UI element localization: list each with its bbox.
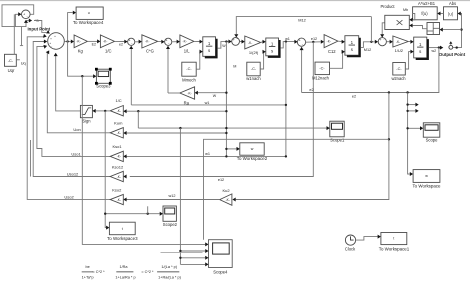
svg-text:-: -	[302, 42, 303, 46]
svg-text:1/L: 1/L	[184, 49, 190, 54]
wire selector to product	[413, 26, 427, 29]
scope Scope1	[330, 121, 344, 137]
wire down to Scope2 line	[105, 111, 106, 228]
svg-text:-: -	[168, 42, 169, 46]
wire w2 feedback into sum5 bottom	[301, 50, 303, 93]
wire W feedback vertical	[225, 42, 227, 157]
wire Mmech to integrator1 ic port	[196, 52, 200, 70]
sum junction big sum	[48, 33, 65, 50]
wire sum6 to 1/U2	[386, 41, 389, 43]
sum junction sum4	[232, 38, 240, 46]
wire C*G to sum3	[158, 40, 162, 42]
svg-text:Scope2: Scope2	[163, 222, 178, 227]
constant Mmech	[182, 62, 196, 76]
wire W to Ra gain	[198, 92, 227, 94]
sum junction sum5	[297, 38, 305, 46]
scope Scope3	[96, 69, 110, 83]
block Sign	[80, 105, 92, 117]
gain C*G	[142, 35, 158, 48]
wire sum5 output e12	[306, 41, 321, 43]
wire to Scope4 input2	[179, 128, 181, 264]
wire W to To Workspace2	[226, 148, 236, 150]
wire Ra output to sum3	[168, 92, 180, 94]
svg-text:-K-: -K-	[117, 131, 121, 135]
wire Fcn to product	[413, 14, 415, 20]
svg-text:-: -	[54, 47, 55, 51]
svg-text:Mmech: Mmech	[182, 77, 196, 82]
gain Ra	[180, 87, 195, 99]
svg-text:-: -	[131, 42, 132, 46]
svg-text:Scope4: Scope4	[213, 269, 228, 274]
svg-text:Kg: Kg	[78, 49, 84, 54]
svg-text:Uqr: Uqr	[8, 68, 15, 73]
scope Scope2	[163, 206, 176, 221]
svg-text:W: W	[222, 44, 226, 48]
svg-text:1/U2: 1/U2	[395, 48, 404, 53]
wire input-sum left input	[15, 14, 18, 26]
svg-text:be: be	[85, 265, 89, 269]
svg-text:-K-: -K-	[117, 109, 121, 113]
svg-text:Ku2: Ku2	[222, 188, 230, 193]
svg-text:Uq: Uq	[21, 60, 26, 65]
wire sign feedback to big sum	[56, 55, 81, 111]
outport Output Point	[449, 45, 453, 49]
constant w1nach	[247, 62, 260, 76]
arrow Scope4 input3	[205, 256, 208, 260]
svg-text:To Workspace3: To Workspace3	[107, 236, 138, 241]
wire M12nach to integrator3 ic port	[330, 52, 343, 69]
svg-text:Output Point: Output Point	[439, 52, 466, 57]
svg-text:w2nach: w2nach	[391, 76, 406, 81]
wire w2 branch to Scope4 input3	[204, 139, 389, 239]
wire U feedback down to Scope4	[82, 76, 205, 244]
svg-text:Scope3: Scope3	[96, 84, 111, 89]
svg-text:C*G: C*G	[146, 48, 154, 53]
wire to selector block	[443, 29, 462, 31]
wire w1 feedback vertical	[285, 42, 287, 157]
svg-text:-K-: -K-	[117, 198, 121, 202]
svg-text:-K-: -K-	[226, 198, 230, 202]
gain Kso2	[110, 194, 123, 204]
svg-text:Scope: Scope	[426, 138, 439, 143]
svg-text:= C*2 *: = C*2 *	[141, 270, 154, 274]
svg-text:M12nach: M12nach	[312, 75, 330, 80]
wire feedback loop of input sum	[2, 5, 34, 27]
svg-text:C12: C12	[328, 49, 336, 54]
wire w1nach to integrator2 ic port	[260, 52, 263, 69]
wire band segment near Scope4	[161, 251, 203, 253]
scope Scope	[423, 123, 440, 137]
svg-text:-C-: -C-	[186, 66, 192, 71]
svg-text:Abs: Abs	[449, 1, 456, 6]
wire Uso12 feedback to big sum	[33, 42, 110, 177]
wire branch to To Workspace4	[68, 13, 73, 42]
wire Ku2 output w12 to Kso2	[127, 199, 220, 201]
wire w1 feedback into sum2 bottom	[130, 49, 132, 105]
svg-text:Input Point: Input Point	[27, 27, 50, 32]
wire input point to big sum	[34, 21, 46, 33]
wire to Scope1	[138, 127, 326, 129]
svg-text:-K-: -K-	[327, 39, 331, 43]
block Abs	[444, 7, 458, 20]
svg-text:t: t	[393, 236, 394, 240]
svg-text:w12: w12	[169, 194, 176, 198]
wire W to Kum gain	[127, 132, 227, 134]
wire to Scope4 input3 from left	[180, 257, 205, 259]
svg-text:+: +	[236, 37, 238, 41]
svg-text:1/(La * p): 1/(La * p)	[161, 265, 177, 269]
svg-text:-C-: -C-	[8, 58, 14, 63]
gain Kum	[110, 128, 123, 138]
svg-text:+: +	[129, 38, 131, 42]
svg-text:= C*2 *: = C*2 *	[93, 270, 106, 274]
svg-text:Kso12: Kso12	[112, 165, 124, 170]
svg-text:1+La/Ra * p: 1+La/Ra * p	[115, 275, 135, 279]
svg-text:-K-: -K-	[103, 40, 107, 44]
gain 1/L	[180, 35, 194, 48]
svg-text:Kum: Kum	[114, 121, 123, 126]
svg-text:M: M	[233, 65, 236, 69]
wire sum3 to 1/L	[172, 41, 177, 43]
wire Uon feedback to big sum	[47, 52, 110, 133]
wire 1/L to integrator1	[194, 40, 200, 42]
wire Uq vertical stub	[21, 27, 23, 46]
wire 1/C left to Sign	[96, 110, 111, 112]
integrator I1	[203, 37, 216, 57]
svg-text:f(u): f(u)	[421, 11, 428, 16]
svg-text:1/Ra: 1/Ra	[119, 265, 128, 269]
wire Uso1 feedback to big sum	[37, 46, 110, 156]
svg-text:|u|: |u|	[448, 11, 452, 16]
svg-text:-C-: -C-	[251, 66, 257, 71]
wire to Scope2	[105, 213, 160, 215]
svg-text:-K-: -K-	[187, 91, 191, 95]
scope Scope4	[209, 240, 233, 268]
wire stub arrow 1	[408, 104, 416, 106]
svg-text:w1: w1	[205, 101, 210, 105]
svg-text:To Workspace4: To Workspace4	[73, 20, 104, 25]
frame border top	[0, 0, 470, 2]
svg-text:M12: M12	[298, 17, 306, 22]
block To Workspace1	[381, 233, 407, 245]
svg-text:Clock: Clock	[345, 246, 356, 251]
svg-text:M12: M12	[364, 48, 371, 52]
wire w2 to right vertical	[453, 14, 462, 48]
svg-text:-K-: -K-	[248, 41, 252, 45]
svg-text:+: +	[54, 34, 56, 38]
node S output stub of input sum	[27, 20, 29, 22]
gain 1/(2f)	[245, 36, 261, 49]
wire big sum output to Kg	[64, 41, 71, 43]
svg-text:To Workspace2: To Workspace2	[237, 156, 268, 161]
svg-text:-: -	[383, 37, 384, 41]
wire product Mb into sum6 top	[382, 23, 385, 35]
svg-text:1/(2f): 1/(2f)	[249, 50, 259, 55]
wire sum2 to C*G	[135, 41, 139, 43]
svg-text:-K-: -K-	[117, 175, 121, 179]
svg-text:-K-: -K-	[117, 155, 121, 159]
svg-text:w2: w2	[431, 49, 436, 53]
svg-text:w1nach: w1nach	[246, 76, 261, 81]
sum junction sum6	[378, 38, 386, 46]
wire branch down to To Workspace	[408, 93, 410, 175]
svg-text:w: w	[251, 147, 254, 151]
svg-text:Kso2: Kso2	[112, 188, 122, 193]
wire integrator2 output w1	[281, 42, 295, 48]
svg-text:w1: w1	[285, 37, 290, 41]
block To Workspace	[413, 170, 440, 183]
svg-text:A*w2+B1: A*w2+B1	[418, 1, 436, 6]
svg-text:Uon: Uon	[73, 127, 80, 132]
svg-text:+: +	[23, 13, 25, 17]
svg-text:w1: w1	[205, 152, 210, 156]
wire Ra feedback into sum3 bottom	[167, 49, 169, 93]
wire 1/U2 to integrator4	[408, 41, 410, 43]
gain C12	[324, 35, 338, 48]
integrator I3	[345, 36, 359, 56]
block To Workspace2	[240, 143, 264, 155]
svg-text:+: +	[166, 38, 168, 42]
gain Ku2	[220, 194, 232, 205]
svg-text:e2: e2	[119, 42, 123, 46]
block Fcn A*w2+B1	[413, 7, 438, 20]
wire e2 feedback from output to sum5	[302, 48, 439, 93]
svg-text:1/C: 1/C	[105, 49, 112, 54]
svg-text:+: +	[299, 39, 301, 43]
svg-text:-: -	[51, 45, 52, 49]
svg-text:1/C: 1/C	[115, 98, 121, 103]
sum junction input sum	[22, 10, 31, 19]
wire Uq stub	[16, 59, 20, 61]
svg-text:e2: e2	[352, 94, 356, 98]
svg-text:To Workspace1: To Workspace1	[379, 246, 410, 251]
gain 1/C left	[110, 106, 123, 116]
wire Uqr to input sum	[13, 14, 15, 54]
wire branch down to Scope1 line	[137, 111, 139, 128]
svg-text:Kso1: Kso1	[112, 144, 122, 149]
wire Uso2 feedback to big sum	[27, 37, 110, 200]
svg-text:-K-: -K-	[396, 40, 400, 44]
svg-text:-K-: -K-	[145, 40, 149, 44]
svg-text:E2: E2	[92, 42, 96, 46]
sum junction sum3	[165, 38, 172, 45]
svg-text:1+Ra/(La * p): 1+Ra/(La * p)	[158, 275, 181, 279]
gain Kso12	[110, 171, 123, 181]
wire C12 to integrator3	[338, 40, 342, 42]
svg-text:-C-: -C-	[319, 65, 325, 70]
wire to Scope4 input4	[180, 263, 205, 265]
svg-text:Uso2: Uso2	[64, 194, 74, 199]
svg-text:e12: e12	[218, 178, 224, 182]
svg-text:-: -	[27, 14, 28, 18]
constant Uqr	[5, 54, 17, 66]
constant w2nach	[393, 63, 406, 76]
svg-text:Uso12: Uso12	[67, 172, 79, 177]
gain 1/C	[100, 35, 114, 48]
wire stub arrow 2	[408, 110, 416, 112]
block Product	[385, 15, 410, 29]
integrator I2	[266, 38, 279, 56]
wire w1 to sum2 bottom line	[131, 104, 286, 106]
gain Kso1	[110, 151, 123, 161]
block To Workspace3	[109, 222, 135, 235]
gain Kg	[74, 35, 87, 48]
svg-text:To Workspace: To Workspace	[412, 183, 441, 188]
wire e12 feedback to Kso12	[130, 42, 313, 177]
svg-text:Scope1: Scope1	[330, 137, 345, 142]
svg-text:u: u	[88, 11, 90, 15]
svg-text:w: w	[425, 174, 428, 178]
wire M12 feedback into sum4 top	[236, 17, 371, 35]
wire 1/(2f) to integrator2	[261, 41, 263, 44]
svg-text:Mb: Mb	[403, 8, 408, 12]
svg-text:Product: Product	[380, 4, 395, 9]
wire short segment left area	[30, 140, 32, 177]
svg-text:Sign: Sign	[82, 118, 91, 123]
svg-text:e2: e2	[309, 88, 313, 92]
wire stub above Scope2 line	[147, 206, 149, 213]
svg-text:+: +	[380, 38, 382, 42]
wire integrator4 output w2	[429, 47, 440, 49]
wire Clock to To Workspace1	[356, 237, 378, 241]
wire w2nach to integrator4 ic port	[405, 52, 410, 69]
svg-text:-K-: -K-	[76, 40, 80, 44]
svg-text:1+Ta*p: 1+Ta*p	[82, 275, 94, 279]
constant M12nach	[315, 62, 330, 75]
wire M12 feedback up	[370, 17, 372, 42]
wire to Scope	[408, 127, 420, 129]
wire W to 1/C left gain	[127, 110, 227, 112]
wire integrator1 output W	[218, 42, 229, 49]
sum junction sum2	[128, 38, 135, 45]
wire w2 feedback to Ku2	[236, 93, 389, 200]
wire w1 to Kso1 gain	[127, 155, 286, 157]
block selector	[427, 23, 440, 35]
svg-text:+: +	[233, 38, 235, 42]
wire Abs to Fcn	[441, 13, 444, 15]
integrator I4	[414, 37, 427, 58]
svg-text:W: W	[213, 94, 217, 98]
svg-text:-C-: -C-	[396, 66, 402, 71]
gain 1/U2	[393, 36, 408, 47]
wire integrator3 output M12	[361, 42, 375, 48]
svg-text:+: +	[50, 37, 52, 41]
block To Workspace4	[76, 7, 103, 19]
wire branch to Scope3	[68, 42, 94, 77]
wire sum4 to 1/(2f)	[240, 40, 242, 42]
svg-text:e12: e12	[311, 37, 317, 41]
svg-text:t: t	[122, 227, 123, 231]
svg-text:-K-: -K-	[183, 40, 187, 44]
wire Kg to 1/C gain	[87, 40, 97, 42]
svg-text:Uso1: Uso1	[71, 151, 81, 156]
clock Clock	[345, 235, 355, 245]
wire 1/C to sum2	[115, 40, 125, 42]
